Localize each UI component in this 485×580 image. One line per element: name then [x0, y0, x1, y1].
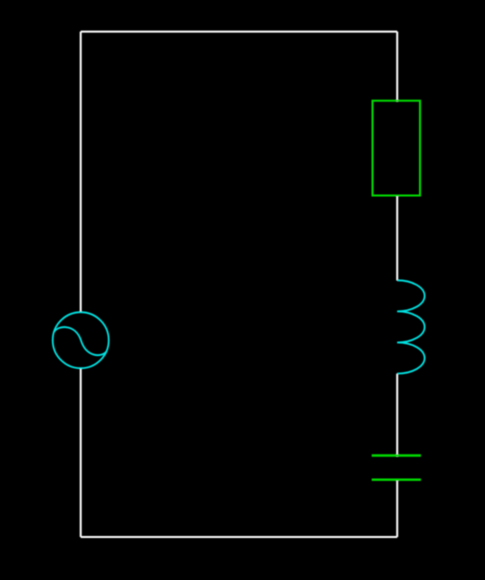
capacitor C bottom plate — [372, 479, 421, 481]
wire resistor to inductor — [396, 195, 398, 281]
AC voltage source V1 sine wave — [54, 327, 107, 355]
wire top rail — [81, 31, 398, 33]
wire left upper segment — [80, 32, 82, 312]
AC voltage source V1 circle — [53, 312, 109, 368]
inductor L (three arcs) — [397, 280, 425, 373]
wire right upper segment (top rail to resistor) — [396, 32, 398, 102]
wire left lower segment — [80, 368, 82, 537]
wire inductor to capacitor — [396, 374, 398, 457]
capacitor C top plate — [372, 454, 421, 456]
wire bottom rail — [81, 536, 398, 538]
resistor R (green rectangle body) — [373, 101, 421, 196]
wire capacitor to bottom rail — [396, 479, 398, 538]
